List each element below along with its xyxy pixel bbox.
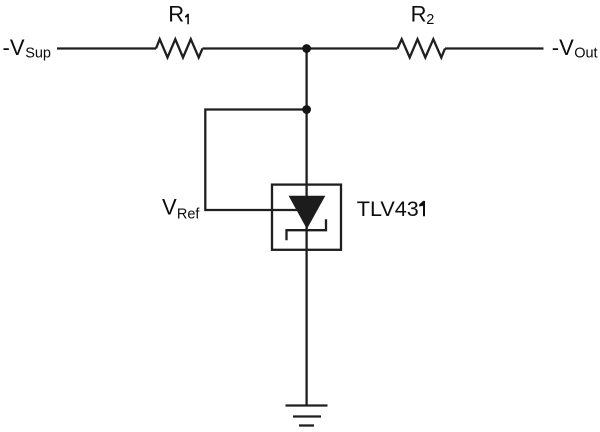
- svg-text:-V: -V: [3, 35, 25, 60]
- svg-text:Out: Out: [574, 45, 597, 61]
- svg-text:Ref: Ref: [177, 206, 201, 222]
- svg-text:V: V: [162, 195, 177, 220]
- svg-text:-V: -V: [552, 35, 574, 60]
- svg-text:2: 2: [426, 12, 434, 28]
- svg-text:R: R: [168, 2, 184, 27]
- svg-text:Sup: Sup: [25, 45, 51, 61]
- svg-text:R: R: [411, 2, 427, 27]
- svg-text:TLV43: TLV43: [357, 196, 419, 221]
